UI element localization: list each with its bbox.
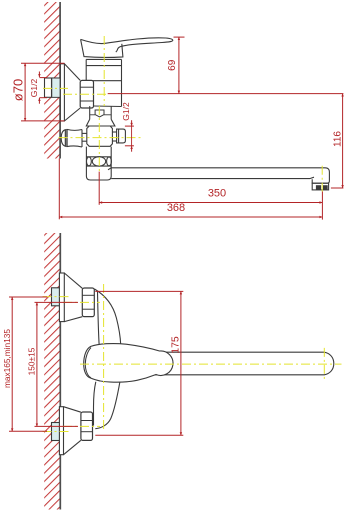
svg-text:G1/2: G1/2 <box>29 79 39 98</box>
svg-text:G1/2: G1/2 <box>121 102 131 121</box>
svg-text:ø70: ø70 <box>10 79 25 101</box>
svg-text:175: 175 <box>169 336 181 354</box>
svg-text:69: 69 <box>167 59 178 71</box>
svg-text:350: 350 <box>208 188 226 200</box>
svg-text:116: 116 <box>333 131 344 147</box>
svg-text:368: 368 <box>167 202 185 214</box>
svg-text:max165,min135: max165,min135 <box>2 329 12 388</box>
svg-text:150±15: 150±15 <box>27 347 37 375</box>
